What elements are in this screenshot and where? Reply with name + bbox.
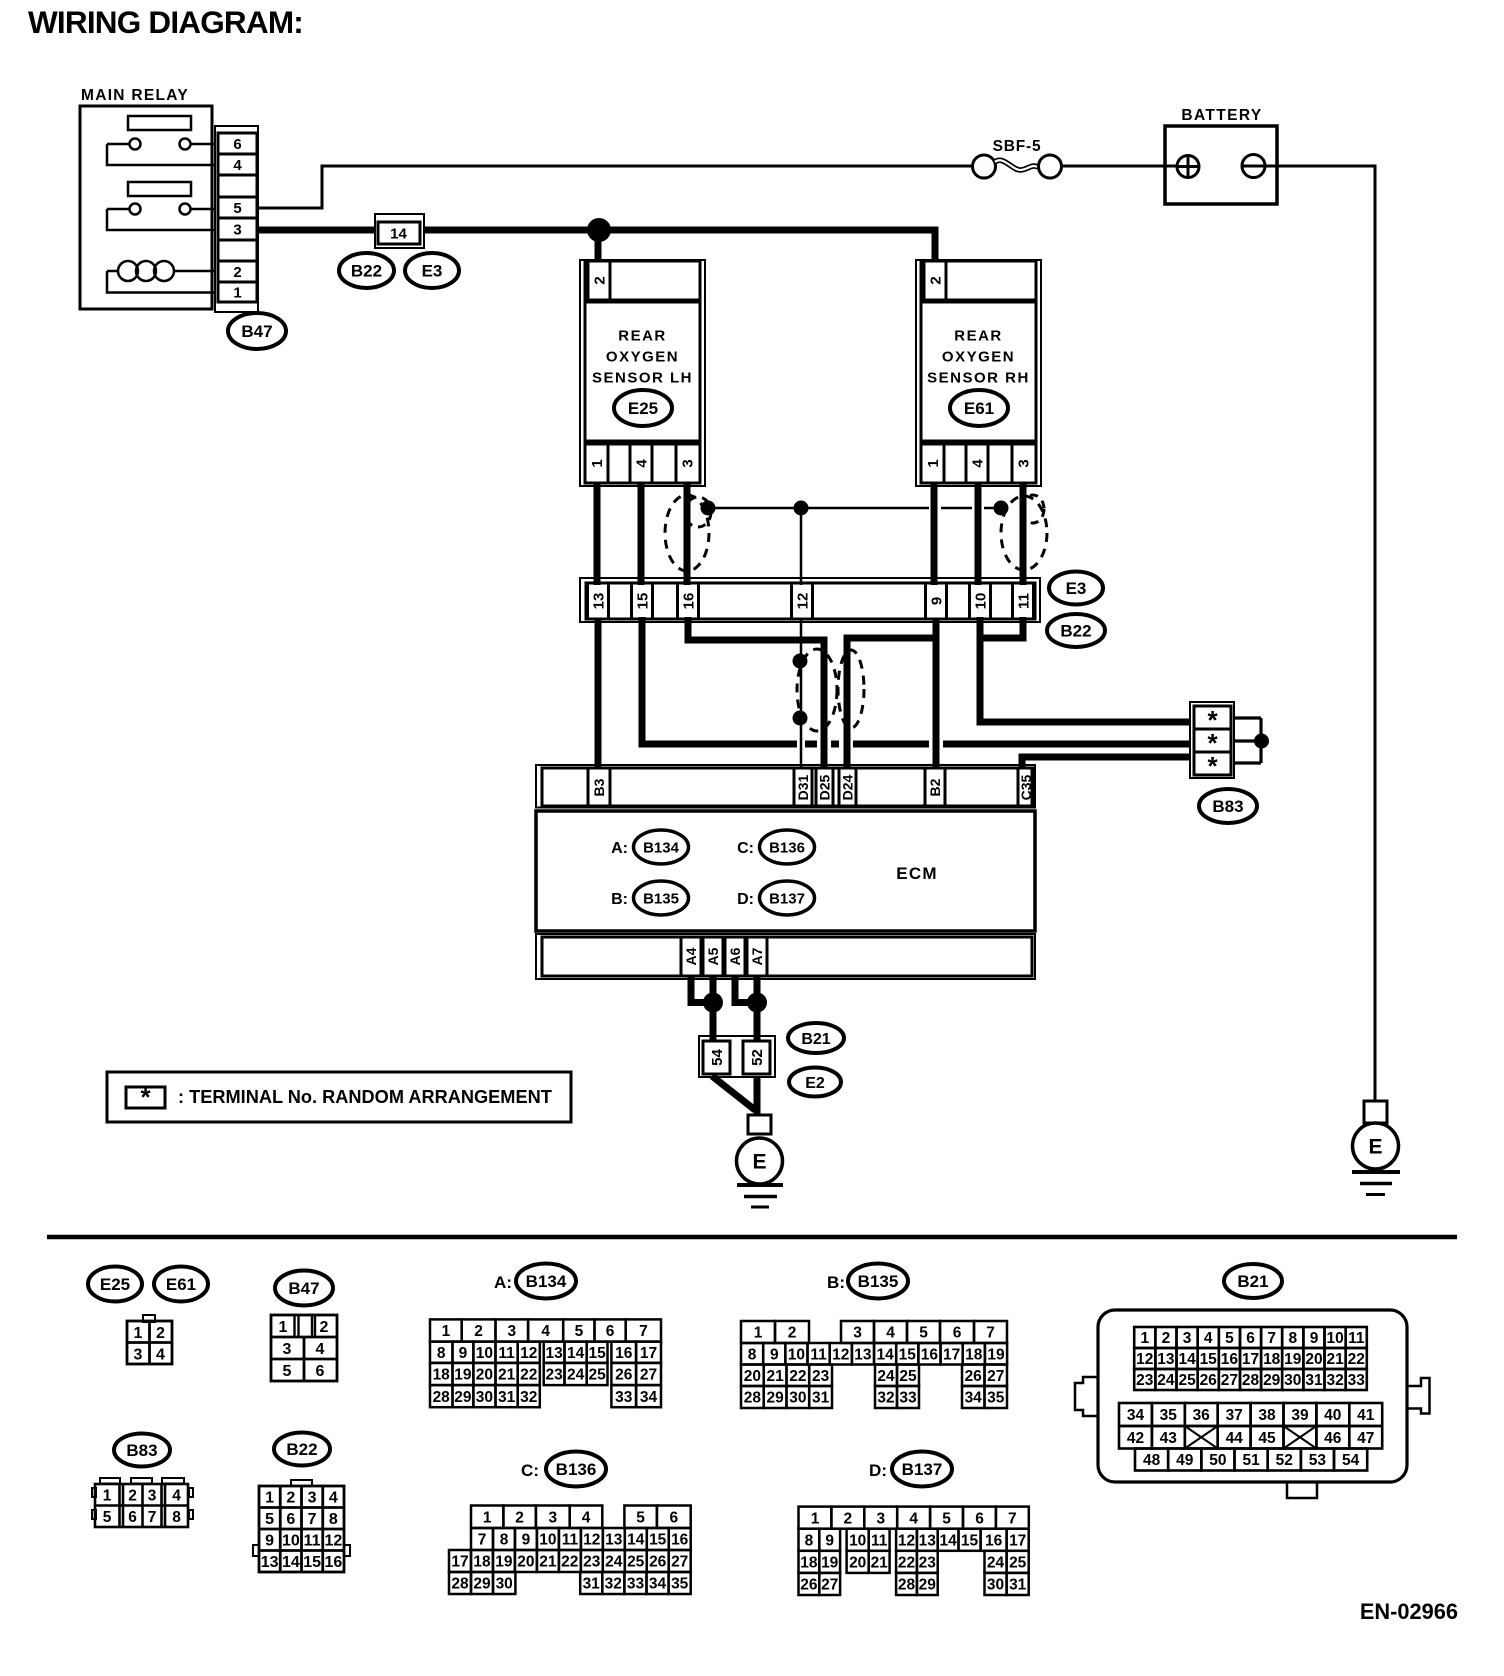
svg-text:3: 3 [148, 1488, 157, 1505]
svg-text:8: 8 [437, 1345, 446, 1362]
svg-text:28: 28 [433, 1389, 451, 1406]
svg-text:28: 28 [898, 1577, 916, 1594]
connector ref C: B136 (view) [521, 1452, 606, 1487]
svg-text:28: 28 [1242, 1372, 1260, 1389]
connector B22 pin view (4x4) [253, 1480, 350, 1572]
svg-text:32: 32 [877, 1390, 894, 1407]
svg-text:15: 15 [634, 593, 651, 610]
svg-text:A4: A4 [683, 947, 699, 965]
svg-text:ECM: ECM [896, 864, 937, 883]
ECM top connector strip [536, 765, 1035, 808]
svg-text:34: 34 [1127, 1407, 1145, 1424]
shield of sensor RH pin 3 wire (dashed) [1001, 495, 1047, 570]
svg-text:*: * [1207, 751, 1218, 781]
svg-text:34: 34 [965, 1390, 983, 1407]
svg-text:BATTERY: BATTERY [1181, 107, 1262, 124]
connector ref B47 (view) [275, 1271, 333, 1306]
wire: sensor LH pin 3 to E3 pin 16 (shielded) [684, 483, 691, 585]
document number EN-02966 [1360, 1599, 1458, 1624]
svg-text:30: 30 [789, 1390, 806, 1407]
svg-text:15: 15 [961, 1532, 979, 1549]
wire: fuse to battery [1062, 165, 1177, 168]
svg-text:13: 13 [919, 1532, 937, 1549]
svg-text:4: 4 [1204, 1330, 1213, 1347]
svg-text:31: 31 [1305, 1372, 1323, 1389]
svg-text:49: 49 [1176, 1452, 1194, 1469]
svg-text:2: 2 [474, 1323, 483, 1340]
svg-text:29: 29 [473, 1576, 491, 1593]
svg-text:*: * [140, 1082, 151, 1112]
svg-text:1: 1 [925, 459, 942, 467]
svg-text:19: 19 [1284, 1351, 1302, 1368]
svg-text:4: 4 [541, 1323, 550, 1340]
svg-text:1: 1 [134, 1325, 143, 1342]
svg-text:12: 12 [794, 593, 811, 610]
svg-text:27: 27 [671, 1554, 688, 1571]
svg-text:24: 24 [877, 1368, 895, 1385]
svg-text:48: 48 [1143, 1452, 1161, 1469]
svg-text:14: 14 [390, 225, 407, 242]
svg-text:6: 6 [953, 1325, 962, 1342]
svg-text:6: 6 [233, 136, 241, 153]
svg-text:23: 23 [812, 1368, 830, 1385]
svg-text:B3: B3 [591, 778, 607, 796]
svg-text:11: 11 [871, 1532, 888, 1549]
separator line between diagram and connector views [47, 1235, 1457, 1240]
svg-text:25: 25 [1009, 1554, 1027, 1571]
svg-text:19: 19 [821, 1554, 839, 1571]
connector 14 (joint connector on bus) [375, 214, 424, 248]
svg-text:B47: B47 [241, 322, 272, 341]
svg-text:B135: B135 [643, 890, 679, 907]
wire: 54 to ground E [712, 1076, 755, 1110]
svg-text:7: 7 [1008, 1510, 1017, 1527]
svg-text:E25: E25 [100, 1275, 130, 1294]
svg-text:21: 21 [498, 1367, 516, 1384]
svg-text:35: 35 [1160, 1407, 1178, 1424]
svg-text:B21: B21 [801, 1031, 830, 1048]
wire: sensor RH pin 1 to E3 pin 9 [931, 483, 938, 585]
svg-text:B2: B2 [927, 778, 943, 796]
svg-text:16: 16 [324, 1554, 342, 1571]
rear oxygen sensor LH [580, 260, 705, 486]
svg-text:37: 37 [1226, 1407, 1243, 1424]
ground E (battery side) [1352, 1101, 1400, 1195]
wire: bus drop to sensor RH pin 2 [932, 227, 939, 262]
svg-text:10: 10 [972, 593, 989, 610]
svg-text:14: 14 [627, 1532, 645, 1549]
svg-text:2: 2 [591, 276, 608, 284]
svg-text:13: 13 [590, 593, 607, 610]
connector D B137 pin view [799, 1507, 1029, 1595]
svg-text:B22: B22 [351, 262, 382, 281]
connector B B135 pin view [741, 1321, 1007, 1408]
shield of sensor LH pin 3 wire (dashed) [665, 495, 711, 571]
svg-text:7: 7 [1267, 1330, 1276, 1347]
svg-text:1: 1 [103, 1488, 112, 1505]
svg-text:5: 5 [283, 1363, 292, 1380]
svg-text:E3: E3 [422, 262, 443, 281]
svg-text:1: 1 [811, 1510, 820, 1527]
wire: sensor LH pin 1 to E3 pin 13 [594, 483, 601, 585]
connector ref E2 [789, 1068, 841, 1097]
svg-text:10: 10 [849, 1532, 866, 1549]
svg-text:26: 26 [800, 1577, 818, 1594]
svg-text:3: 3 [1183, 1330, 1192, 1347]
connector ref E3 (strip) [1049, 572, 1103, 605]
wire: B83 shield commoning bracket [1234, 718, 1261, 763]
svg-text:21: 21 [871, 1554, 889, 1571]
svg-text:12: 12 [583, 1532, 600, 1549]
svg-text:16: 16 [921, 1346, 939, 1363]
wire: sensor RH pin 4 to E3 pin 10 [975, 483, 982, 585]
wire: E3 pin 9 to ECM B2 [933, 619, 940, 768]
svg-text:A:: A: [611, 840, 628, 857]
svg-text:8: 8 [500, 1532, 509, 1549]
svg-text:3: 3 [507, 1323, 516, 1340]
svg-text:45: 45 [1258, 1430, 1276, 1447]
wire: shield drain bus (thin) [708, 507, 1001, 510]
svg-text:12: 12 [520, 1345, 537, 1362]
connector ref A: B134 (view) [494, 1264, 576, 1299]
svg-text:1: 1 [279, 1319, 288, 1336]
svg-text:10: 10 [1326, 1330, 1343, 1347]
connector B83 pin view (2x4) [92, 1478, 193, 1527]
svg-text:3: 3 [1015, 459, 1032, 467]
svg-text:54: 54 [709, 1049, 726, 1066]
shield of D24 wire (dashed) [838, 650, 864, 728]
svg-text:50: 50 [1209, 1452, 1226, 1469]
svg-text:16: 16 [615, 1345, 633, 1362]
connector ref B: B135 (view) [827, 1264, 908, 1299]
svg-text:31: 31 [1009, 1577, 1027, 1594]
svg-text:26: 26 [649, 1554, 667, 1571]
wire: drain drop to E3 pin 12 [800, 508, 803, 585]
connector ref E25 (view) [88, 1267, 142, 1302]
node: shield drain upper (middle shield) [793, 654, 808, 669]
battery [1165, 107, 1277, 204]
wire: sensor LH pin 4 to E3 pin 15 [638, 483, 645, 585]
svg-text:29: 29 [766, 1390, 784, 1407]
svg-text:5: 5 [942, 1510, 951, 1527]
svg-text:B83: B83 [126, 1441, 157, 1460]
svg-text:12: 12 [832, 1346, 849, 1363]
svg-text:3: 3 [853, 1325, 862, 1342]
svg-text:15: 15 [303, 1554, 321, 1571]
svg-text:7: 7 [148, 1509, 157, 1526]
svg-text:C35: C35 [1018, 774, 1034, 800]
svg-text:4: 4 [156, 1346, 165, 1363]
svg-text:11: 11 [1348, 1330, 1365, 1347]
svg-text:E3: E3 [1066, 579, 1087, 598]
svg-text:B22: B22 [1060, 622, 1091, 641]
connector B47 pin view [271, 1315, 337, 1381]
svg-text:4: 4 [969, 459, 986, 468]
svg-text:52: 52 [749, 1049, 766, 1066]
svg-text:23: 23 [1136, 1372, 1154, 1389]
svg-text:3: 3 [548, 1509, 557, 1526]
svg-text:20: 20 [744, 1368, 761, 1385]
svg-text:32: 32 [605, 1576, 622, 1593]
svg-text:SBF-5: SBF-5 [993, 138, 1042, 155]
svg-text:12: 12 [1136, 1351, 1153, 1368]
svg-text:A5: A5 [705, 947, 721, 965]
node: A6/A7 joint [747, 993, 767, 1013]
svg-text:14: 14 [282, 1554, 300, 1571]
connector E25/E61 pin view (2x2) [127, 1315, 172, 1364]
svg-text:18: 18 [433, 1367, 451, 1384]
svg-text:9: 9 [459, 1345, 468, 1362]
svg-text:14: 14 [939, 1532, 957, 1549]
svg-text:EN-02966: EN-02966 [1360, 1599, 1458, 1624]
svg-text:23: 23 [919, 1554, 937, 1571]
connector ref B22 (view) [274, 1433, 330, 1466]
svg-text:4: 4 [233, 157, 242, 174]
svg-text:1: 1 [233, 284, 241, 301]
svg-text:14: 14 [1178, 1351, 1196, 1368]
main relay contact 1 [107, 139, 215, 166]
wire: 52 to ground E [754, 1076, 761, 1117]
svg-text:A7: A7 [749, 947, 765, 965]
svg-text:8: 8 [1288, 1330, 1297, 1347]
svg-text:29: 29 [1263, 1372, 1281, 1389]
svg-text:: TERMINAL No. RANDOM ARRANGEM: : TERMINAL No. RANDOM ARRANGEMENT [178, 1087, 552, 1107]
svg-text:B83: B83 [1212, 797, 1243, 816]
svg-text:7: 7 [478, 1532, 487, 1549]
wire: branch from pin 9 wire to ECM D24 [847, 638, 933, 768]
connector A B134 pin view [430, 1319, 661, 1407]
svg-text:11: 11 [1015, 593, 1032, 609]
svg-text:E61: E61 [964, 399, 994, 418]
svg-text:33: 33 [615, 1389, 633, 1406]
svg-text:47: 47 [1357, 1430, 1374, 1447]
svg-text:18: 18 [1263, 1351, 1281, 1368]
connector ref B83 (view) [114, 1434, 170, 1467]
svg-text:B:: B: [611, 891, 628, 908]
svg-text:35: 35 [671, 1576, 689, 1593]
connector ref B22 (bus) [339, 253, 394, 288]
svg-text:4: 4 [582, 1509, 591, 1526]
svg-text:8: 8 [172, 1509, 181, 1526]
svg-text:30: 30 [1284, 1372, 1301, 1389]
svg-text:D31: D31 [795, 774, 811, 800]
svg-text:3: 3 [876, 1510, 885, 1527]
svg-text:27: 27 [1221, 1372, 1238, 1389]
svg-text:3: 3 [308, 1490, 317, 1507]
svg-text:29: 29 [919, 1577, 937, 1594]
svg-text:1: 1 [754, 1325, 763, 1342]
svg-text:OXYGEN: OXYGEN [606, 348, 679, 365]
svg-text:41: 41 [1357, 1407, 1375, 1424]
svg-text:MAIN RELAY: MAIN RELAY [81, 87, 189, 104]
svg-text:B47: B47 [288, 1279, 319, 1298]
wire: ECM A4 to ground joint [691, 976, 711, 1003]
connector ref E3 (bus) [405, 253, 459, 288]
svg-text:2: 2 [128, 1488, 137, 1505]
svg-text:2: 2 [843, 1510, 852, 1527]
svg-text:23: 23 [545, 1367, 563, 1384]
svg-text:28: 28 [744, 1390, 762, 1407]
svg-text:17: 17 [640, 1345, 657, 1362]
svg-text:17: 17 [1009, 1532, 1026, 1549]
connector ref D: B137 (view) [869, 1452, 952, 1487]
svg-text:7: 7 [986, 1325, 995, 1342]
wire: E3 pin 10 to B83 top [980, 617, 1196, 722]
svg-text:34: 34 [649, 1576, 667, 1593]
svg-text:22: 22 [898, 1554, 915, 1571]
svg-text:46: 46 [1324, 1430, 1342, 1447]
svg-text:D25: D25 [817, 774, 833, 800]
svg-text:A6: A6 [727, 947, 743, 965]
svg-text:E25: E25 [628, 399, 658, 418]
svg-text:18: 18 [473, 1554, 491, 1571]
svg-text:2: 2 [156, 1325, 165, 1342]
shield of D25 wire (dashed) [797, 649, 837, 731]
svg-text:6: 6 [606, 1323, 615, 1340]
svg-text:2: 2 [1162, 1330, 1171, 1347]
svg-text:B137: B137 [769, 890, 805, 907]
svg-text:16: 16 [671, 1532, 689, 1549]
connector C B136 pin view [449, 1506, 691, 1595]
svg-text:SENSOR LH: SENSOR LH [592, 369, 693, 386]
node: shield drain lower (middle shield) [793, 711, 808, 726]
svg-text:E: E [752, 1151, 766, 1174]
svg-text:20: 20 [517, 1554, 534, 1571]
svg-text:17: 17 [943, 1346, 960, 1363]
svg-text:38: 38 [1258, 1407, 1276, 1424]
svg-text:13: 13 [261, 1554, 279, 1571]
svg-text:13: 13 [605, 1532, 623, 1549]
svg-text:D:: D: [737, 891, 754, 908]
svg-text:19: 19 [495, 1554, 513, 1571]
svg-text:22: 22 [520, 1367, 537, 1384]
svg-text:3: 3 [283, 1341, 292, 1358]
svg-text:4: 4 [316, 1341, 325, 1358]
main relay contact 2 [107, 204, 215, 231]
svg-text:22: 22 [561, 1554, 578, 1571]
svg-text:B21: B21 [1237, 1272, 1268, 1291]
svg-text:27: 27 [640, 1367, 657, 1384]
svg-text:1: 1 [1140, 1330, 1149, 1347]
svg-text:12: 12 [324, 1533, 342, 1550]
svg-text:30: 30 [496, 1576, 513, 1593]
svg-text:1: 1 [442, 1323, 451, 1340]
svg-text:25: 25 [1178, 1372, 1196, 1389]
svg-text:8: 8 [805, 1532, 814, 1549]
svg-text:C:: C: [737, 840, 754, 857]
svg-text:2: 2 [927, 276, 944, 284]
svg-text:1: 1 [265, 1490, 274, 1507]
svg-text:B136: B136 [556, 1460, 597, 1479]
svg-text:17: 17 [1242, 1351, 1259, 1368]
svg-text:52: 52 [1276, 1452, 1293, 1469]
wire: battery to ground E (right side) [1265, 166, 1375, 1101]
svg-text:D24: D24 [840, 774, 856, 800]
svg-text:9: 9 [825, 1532, 834, 1549]
svg-text:6: 6 [1246, 1330, 1255, 1347]
svg-text:4: 4 [886, 1325, 895, 1342]
svg-text:2: 2 [286, 1490, 295, 1507]
svg-text:12: 12 [898, 1532, 915, 1549]
svg-text:1: 1 [589, 459, 606, 467]
svg-text:9: 9 [1310, 1330, 1319, 1347]
legend: terminal random arrangement note [107, 1072, 571, 1122]
svg-text:26: 26 [965, 1368, 983, 1385]
svg-text:31: 31 [583, 1576, 601, 1593]
node: shield drain LH [701, 501, 716, 516]
svg-text:11: 11 [498, 1345, 515, 1362]
svg-text:B134: B134 [643, 839, 680, 856]
svg-text:OXYGEN: OXYGEN [942, 348, 1015, 365]
title: WIRING DIAGRAM [28, 4, 303, 40]
svg-text:WIRING DIAGRAM:: WIRING DIAGRAM: [28, 4, 303, 40]
svg-text:24: 24 [987, 1554, 1005, 1571]
wire: ECM A5 to connector 54 [710, 976, 717, 1041]
svg-text:42: 42 [1127, 1430, 1144, 1447]
svg-text:33: 33 [899, 1390, 917, 1407]
svg-text:30: 30 [987, 1577, 1004, 1594]
svg-text:E2: E2 [805, 1075, 825, 1092]
svg-text:7: 7 [639, 1323, 648, 1340]
svg-text:B135: B135 [858, 1272, 899, 1291]
wire: sensor RH pin 3 to E3 pin 11 (shielded) [1020, 483, 1027, 585]
svg-text:15: 15 [649, 1532, 667, 1549]
svg-text:20: 20 [1305, 1351, 1322, 1368]
connector strip E3/B22 [580, 578, 1040, 622]
svg-text:44: 44 [1226, 1430, 1244, 1447]
svg-text:24: 24 [1157, 1372, 1175, 1389]
svg-text:9: 9 [522, 1532, 531, 1549]
svg-text:34: 34 [640, 1389, 658, 1406]
wire: ECM A7 to connector 52 [754, 976, 761, 1041]
svg-text:B:: B: [827, 1273, 845, 1292]
svg-text:4: 4 [329, 1490, 338, 1507]
svg-text:31: 31 [498, 1389, 516, 1406]
svg-text:36: 36 [1193, 1407, 1211, 1424]
svg-text:39: 39 [1291, 1407, 1309, 1424]
svg-text:16: 16 [1221, 1351, 1239, 1368]
svg-text:20: 20 [476, 1367, 493, 1384]
svg-text:8: 8 [329, 1511, 338, 1528]
wire: ECM A6 to ground joint [735, 976, 755, 1003]
svg-text:4: 4 [633, 459, 650, 468]
svg-text:9: 9 [770, 1346, 779, 1363]
svg-text:5: 5 [265, 1511, 274, 1528]
svg-text:33: 33 [1348, 1372, 1366, 1389]
svg-text:21: 21 [1326, 1351, 1344, 1368]
svg-text:REAR: REAR [618, 327, 667, 344]
svg-text:E61: E61 [166, 1275, 196, 1294]
svg-text:REAR: REAR [954, 327, 1003, 344]
ground E (ECM side) [737, 1115, 784, 1207]
node: B83 bracket junction [1254, 734, 1269, 749]
svg-text:23: 23 [583, 1554, 601, 1571]
wire: E3 pin 15 to B83 middle (crosses with hops) [642, 617, 1196, 744]
wire: E3 pin 11 joins pin 10 wire [977, 617, 1023, 638]
svg-text:54: 54 [1342, 1452, 1360, 1469]
connector ref B21 [788, 1023, 844, 1053]
svg-text:15: 15 [899, 1346, 917, 1363]
svg-text:40: 40 [1324, 1407, 1341, 1424]
svg-text:2: 2 [320, 1319, 329, 1336]
main relay [80, 87, 212, 309]
connector ref B47 [228, 313, 286, 349]
svg-text:25: 25 [627, 1554, 645, 1571]
svg-text:51: 51 [1242, 1452, 1260, 1469]
svg-text:SENSOR RH: SENSOR RH [927, 369, 1030, 386]
svg-text:29: 29 [454, 1389, 472, 1406]
svg-text:15: 15 [588, 1345, 606, 1362]
